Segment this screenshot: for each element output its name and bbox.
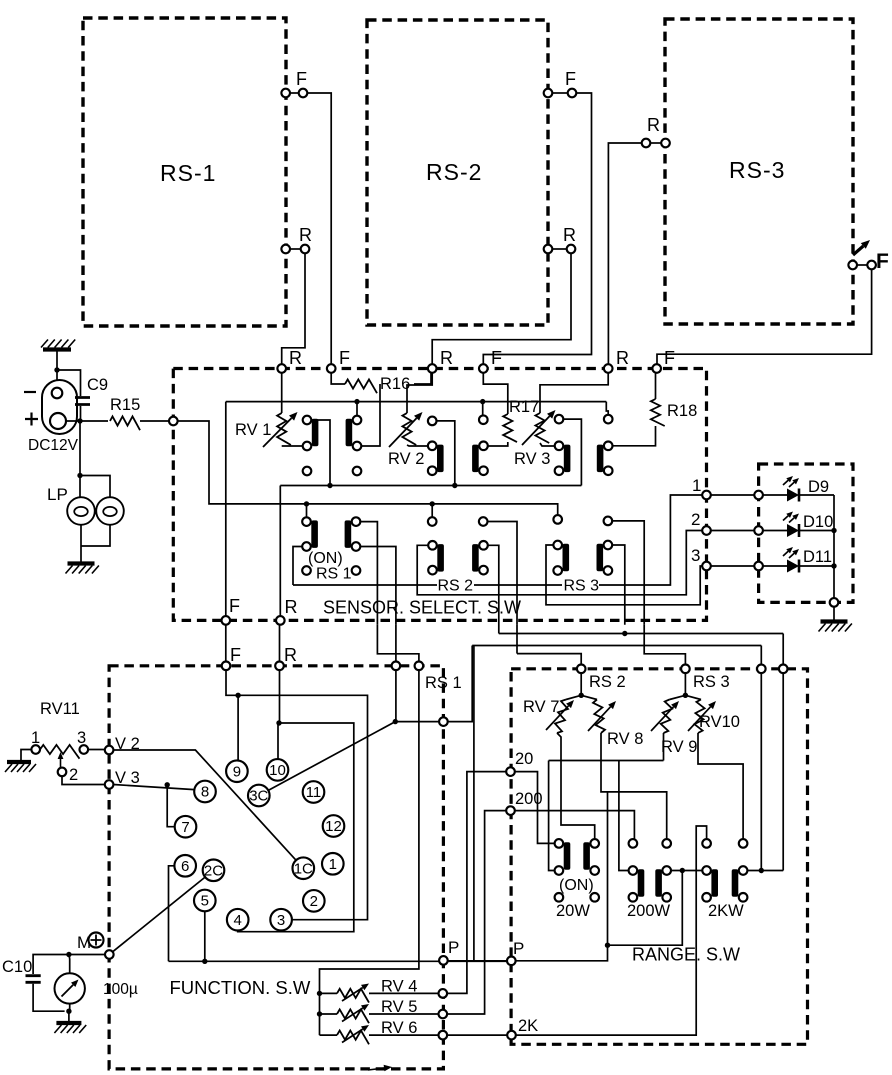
contact R2G1A spare [302,566,311,575]
contact 200W-A free [629,839,638,848]
wire RS-2 R to sensor select [432,253,571,364]
svg-text:R15: R15 [110,396,140,414]
range switch box [511,669,807,1045]
wire RS-2 F to sensor select [483,93,591,364]
svg-text:F: F [229,596,240,616]
contact 12 [323,815,345,837]
terminal RS-3 F outer [867,261,876,270]
wire coil to range RS2 [517,654,581,665]
contact 2KW-A free [702,839,711,848]
contact G1B spare [353,467,362,476]
switch bar G1A [312,419,319,447]
contact G1B top [353,416,362,425]
terminal B_F (bottom edge) [222,616,231,625]
wire right lamp to ground [81,525,110,546]
contact 20W-B mid [590,866,599,875]
sensor unit box RS-1 [83,18,286,326]
contact 200W-A bottom [629,893,638,902]
wire LED common to ground [833,607,835,620]
wire T_R1 down to RV1 [281,373,283,413]
wire RS-1 F link [290,92,299,94]
contact 9 [226,760,248,782]
contact G3B free [604,415,613,424]
contact G2B bottom [479,466,488,475]
svg-text:RV 8: RV 8 [607,730,643,748]
wire RV10 to 2KW-B [698,733,743,839]
terminal range c2 [779,665,788,674]
wire output1 line seg c [599,495,702,585]
junction 5 / P bus [202,959,207,964]
wire y645 bus drop to P bus [473,646,475,962]
wire RV2 to contact [407,445,428,446]
svg-text:100µ: 100µ [103,981,138,998]
wire divider to RV9 [670,695,686,699]
contact 3 [270,909,292,931]
contact G2B mid [479,442,488,451]
wire M to meter node [33,955,105,975]
switch bar R2G2A [437,544,444,572]
svg-text:RV 9: RV 9 [661,738,697,756]
wire c2 down [782,673,784,870]
contact G1A top [303,416,312,425]
meter 100u [54,973,84,1003]
contact R2G1A top [302,517,311,526]
terminal output 3 (right edge) [702,562,711,571]
svg-text:2KW: 2KW [708,902,744,920]
svg-text:SENSOR. SELECT. S.W: SENSOR. SELECT. S.W [323,598,521,618]
wire RS-3 F link [857,264,867,266]
svg-text:LP: LP [47,485,68,504]
contact R2G2B free [479,517,488,526]
wire R17 to G2B mid [488,442,508,446]
switch bar G3B [597,445,604,473]
wire G1'B bottom to function contact [395,625,397,662]
LED D11 [787,560,799,573]
terminal left edge (supply) [169,417,178,426]
wire G2A free to R bus [437,421,455,486]
wire output1 to LED box [711,494,755,496]
svg-text:2K: 2K [518,1017,538,1035]
label minus [24,391,36,393]
terminal RS-2 R inner [544,245,553,254]
wire output1 line seg a [293,584,437,586]
switch bar R2G1A [311,520,318,548]
junction c1 drop [759,868,764,873]
terminal T_R2 (top edge) [428,364,437,373]
junction 3C node [393,719,398,724]
switch bar G2B [472,445,479,473]
terminal range 20 [506,767,515,776]
wire F bus (bus_t) [226,401,607,403]
wire F to contact 9 [226,670,238,760]
contact R2G2A mid [428,541,437,550]
junction G1A/R-bus [327,483,332,488]
wire plus node down to lamps [79,421,81,497]
switch bar G2A [437,445,444,473]
wire RS2 to divider [580,673,582,695]
svg-text:3: 3 [277,912,285,929]
contact 2KW-B mid [739,866,748,875]
junction plus node [77,418,82,423]
wire meter bottom stub [69,1004,71,1012]
contact G3A bottom [555,466,564,475]
svg-text:R: R [563,225,576,245]
wire RV5 to edge [369,1013,439,1015]
wire RV5 to range 200 [447,811,506,1014]
wire divider to RV8 [581,695,597,699]
wire F branch to contact 3 [238,695,367,919]
wire 3C diagonal [268,722,395,791]
contact 3C [248,785,270,807]
svg-text:(ON): (ON) [559,877,594,894]
svg-text:RV 3: RV 3 [514,450,550,468]
wire T_F1 down to R16 [331,373,345,384]
wire to C9 top [57,370,81,396]
junction lamp node [77,473,82,478]
svg-text:F: F [491,348,502,368]
svg-text:2: 2 [69,766,78,784]
wire D10 cathode [800,530,834,532]
svg-text:RV11: RV11 [40,700,80,718]
function switch box [109,666,443,1069]
wire G1'A bottom to output1 line [293,547,302,586]
junction RS2 divider [579,693,584,698]
svg-text:F: F [876,250,889,273]
ground (below lamps) [68,561,95,565]
wire RV6 to edge [369,1034,439,1036]
wire RV9 horizontal [549,760,664,762]
terminal function RS1-b [415,662,424,671]
svg-text:10: 10 [269,762,286,779]
svg-text:RS-3: RS-3 [729,157,785,183]
svg-text:RS 2: RS 2 [438,578,474,595]
battery negative pole circle [52,388,63,399]
terminal RV11 pin1 [31,745,40,754]
contact 1C [293,857,315,879]
terminal LED box in 2 [754,526,763,535]
svg-text:R: R [647,115,660,135]
junction RV5 feed [317,1011,322,1016]
contact 200W-A mid [629,866,638,875]
contact G2A free [428,417,437,426]
sensor unit box RS-2 [367,20,548,325]
wire battery plus to R15 [66,420,108,422]
wire range bus y645 drop to c1 [760,646,762,665]
contact 8 [194,781,216,803]
terminal LED box common [830,598,839,607]
contact G2A mid [428,442,437,451]
wire V2 to wiper 1C [113,750,296,860]
wire V3 to contact 8 [113,785,194,790]
wire bus2 drop to G2'A free [431,504,433,517]
wire RV5 lead [320,1013,338,1015]
terminal function F [222,662,231,671]
terminal RS-2 F outer [568,89,577,98]
terminal V2 [105,746,114,755]
svg-text:2: 2 [691,510,700,529]
contact 7 [175,816,197,838]
wire P collector up [607,792,609,945]
svg-text:200: 200 [515,790,543,808]
wire RV4 to range 20 [447,772,506,994]
contact R2G2B bottom [479,566,488,575]
wire C9 bottom to node [80,406,82,421]
svg-text:RS 3: RS 3 [564,578,600,595]
contact 20W-A top [555,839,564,848]
terminal M (edge) [105,950,114,959]
svg-text:D9: D9 [808,478,829,496]
junction R branch [276,720,281,725]
svg-text:(ON): (ON) [308,550,343,567]
wire T_R2 down to RV2 [407,373,432,413]
wire output3 to LED box [711,565,755,567]
terminal RS-1 R outer [301,245,310,254]
wire RV4 to edge [369,992,439,994]
wire left lamp to ground [80,525,82,562]
contact G1B bottom [353,442,362,451]
contact 2KW-B bottom [739,893,748,902]
wire RS1 coil branch [448,646,473,722]
contact R2G3A mid [553,541,562,550]
contact 6 [174,855,196,877]
terminal RV6 (edge) [439,1031,448,1040]
terminal T_F1 (top edge) [327,364,336,373]
wire RV9 junction drop [663,733,665,761]
svg-text:P: P [448,938,459,957]
terminal RS-1 R inner [281,245,290,254]
svg-text:R16: R16 [380,375,410,393]
LED indicator box [759,464,853,602]
label plus [25,413,38,426]
wire M+ diagonal to 2C [113,877,206,952]
variable resistor RV2 [402,413,416,445]
contact 1 [322,853,344,875]
sensor unit box RS-3 [665,19,853,324]
svg-text:D10: D10 [803,513,833,531]
svg-text:P: P [513,939,524,958]
svg-text:RS-1: RS-1 [160,160,216,186]
wire RV6 to range 2K [447,1034,507,1036]
wire to range RS3 terminal [644,625,685,665]
svg-text:20W: 20W [556,902,590,920]
wire RV3 to contact [540,443,555,446]
svg-text:R17: R17 [509,398,539,416]
wire R branch to contact 4 [238,723,354,932]
wire relay coil vertical [516,625,518,654]
resistor R16 [345,379,377,393]
variable resistor RV10 [694,700,704,734]
terminal LED box in 3 [754,562,763,571]
wire RS-2 R link [552,248,566,250]
resistor R15 [110,416,140,430]
wire RV11 pin3 to V2 [88,749,105,751]
svg-text:R: R [289,348,302,368]
variable resistor RV7 [555,700,568,734]
wire G3'A mid to output3 line [546,545,702,605]
terminal range 200 [506,806,515,815]
wire R16 to T_R2 [414,373,431,384]
contact 2KW-A bottom [702,893,711,902]
terminal output 2 (right edge) [702,526,711,535]
svg-text:F: F [230,645,241,665]
svg-text:RS 1: RS 1 [316,566,352,583]
wire R15 to sensor select terminal [140,420,169,422]
variable resistor RV3 [535,413,549,443]
contact 20W-A spare [555,893,564,902]
switch bar R2G2B [472,544,479,572]
contact 20W-A mid [555,866,564,875]
wire divider to RV7 [566,695,581,699]
svg-text:8: 8 [201,784,209,801]
wire G1B bottom to R16 line [361,384,380,446]
svg-text:RV 1: RV 1 [235,421,271,439]
terminal output 1 (right edge) [702,491,711,500]
wire range bus drop to c2 [782,634,784,665]
svg-text:RV10: RV10 [699,713,740,731]
wire G2'B mid to range bus [488,545,499,633]
wire RV4 lead [320,992,338,994]
variable resistor RV6 [337,1031,369,1045]
wire G3'B free to range RS3 [612,521,644,625]
wire RV1 to contact [282,445,303,447]
contact G3B bottom [604,466,613,475]
wire RS-1 R to sensor select [282,253,305,364]
wire output2 to LED box [711,530,755,532]
junction G1B/F-bus [354,399,359,404]
svg-text:R18: R18 [667,402,697,420]
wire bus2 drop to G1'A [306,504,308,517]
wire range bus y645 [472,645,761,647]
contact 4 [227,909,249,931]
wire P bus [169,960,508,962]
svg-text:2: 2 [310,893,318,910]
wire R18 to G3B mid [613,426,656,446]
wire RV6 lead [320,1034,338,1036]
junction F branch [235,693,240,698]
wire 200W-B mid to 2KW-A mid [671,870,702,872]
wire 200 line [515,811,635,840]
wire to D10 anode [763,530,787,532]
junction bus2/G1'A [304,501,309,506]
terminal RV5 (edge) [439,1010,448,1019]
svg-text:F: F [565,69,576,89]
wire RV8 to 200W-B [601,733,667,839]
svg-text:RV 2: RV 2 [388,450,424,468]
terminal B_R (bottom edge) [276,616,285,625]
svg-text:RS 2: RS 2 [589,673,626,691]
contact G3A free [555,415,564,424]
svg-text:1: 1 [692,476,701,495]
lamp LP left [67,497,95,525]
svg-text:200W: 200W [627,902,671,920]
switch bar 20W-B [583,842,590,870]
contact R2G3A free [553,515,562,524]
contact 200W-B free [662,839,671,848]
junction meter bottom [66,1009,71,1014]
wire to D11 anode [763,565,787,567]
contact R2G1B bottom [352,542,361,551]
svg-text:5: 5 [201,893,209,910]
svg-text:D11: D11 [803,548,832,566]
switch bar 200W-A [638,869,645,897]
variable resistor RV4 [337,989,369,1003]
contact G1A bottom [303,442,312,451]
terminal range P [507,957,516,966]
terminal RS-1 F inner [281,89,290,98]
wire contact 6 stub [169,866,175,962]
variable resistor RV5 [337,1009,369,1023]
wire range bus y634 [499,633,783,635]
battery DC12V outline [42,380,77,434]
wire P across gap [448,960,507,962]
terminal RS1 (function edge) [439,717,448,726]
wire RS-1 F to sensor select [307,93,331,364]
wire B_F to function F [225,625,227,663]
wire G3'B mid to range bus [612,545,625,625]
wire G1A top to R bus [311,420,330,486]
contact 2 [303,890,325,912]
svg-text:DC12V: DC12V [28,437,79,454]
svg-text:2C: 2C [204,863,223,880]
wire 2K line [516,826,707,1035]
terminal RS-2 F inner [544,89,553,98]
wire V3 branch to contact 7 [167,785,175,827]
svg-text:F: F [339,348,350,368]
switch bar R2G1B [345,520,352,548]
wire G1B top to F bus [356,402,358,416]
wire P collector [516,945,608,961]
terminal T_F3 (top edge) [652,364,661,373]
wire 3C node to RS1 edge [395,721,439,723]
svg-text:7: 7 [181,819,189,836]
wire P collector to mids [608,871,683,946]
junction P collector a [605,943,610,948]
annotation arrow on function box edge [368,1068,384,1070]
junction D11 cathode [831,563,836,568]
terminal T_R1 (top edge) [277,364,286,373]
terminal range c1 [757,665,766,674]
LED D9 [787,489,799,502]
svg-text:RS 1: RS 1 [425,674,462,692]
contact 20W-B top [590,839,599,848]
wire RS1-b down to RV ladder [320,670,419,1035]
terminal function R [275,662,284,671]
resistor R17 [503,414,517,442]
svg-text:11: 11 [306,784,322,801]
contact R2G3B free [604,517,613,526]
wire G1'B top to function box [360,522,377,625]
terminal RS-3 R inner [661,139,670,148]
svg-text:3C: 3C [249,788,268,805]
contact R2G3B bottom [604,566,613,575]
wire RV7 to 20W-B [557,733,595,839]
annotation arrow at RS-3 F [853,246,863,255]
svg-text:6: 6 [181,858,189,875]
contact R2G3B mid [604,541,613,550]
svg-text:RV 7: RV 7 [523,698,559,716]
potentiometer RV11 [40,745,79,759]
contact 20W-B spare [590,893,599,902]
junction V3 branch [165,782,170,787]
capacitor C10 plates [26,976,41,983]
contact G2A bottom [428,466,437,475]
terminal RV11 pin3 [80,745,89,754]
junction D10 cathode [831,528,836,533]
wire LED common down [833,495,835,598]
contact G3B mid [604,442,613,451]
terminal RV11 pin2 [58,768,67,777]
svg-text:9: 9 [233,763,241,780]
